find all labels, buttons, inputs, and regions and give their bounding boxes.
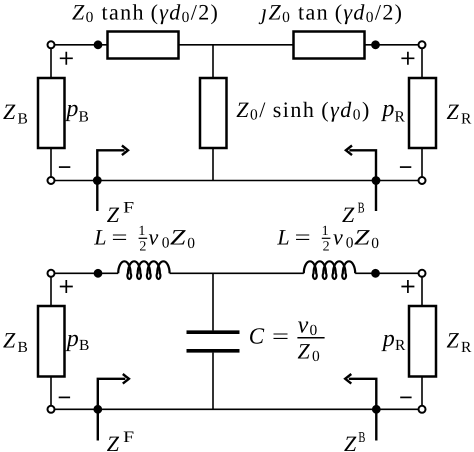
svg-text:R: R [461, 111, 472, 128]
svg-text:ν: ν [149, 225, 159, 250]
svg-text:R: R [395, 108, 406, 125]
svg-text:B: B [79, 108, 89, 125]
svg-text:B: B [358, 430, 365, 446]
svg-text:0: 0 [162, 235, 170, 252]
svg-text:Z: Z [447, 328, 460, 353]
svg-text:Z: Z [342, 202, 355, 227]
svg-text:0: 0 [312, 348, 320, 365]
svg-text:Z: Z [447, 99, 460, 124]
svg-text:L: L [276, 225, 289, 250]
svg-text:F: F [123, 429, 134, 446]
svg-text:0: 0 [310, 322, 318, 339]
svg-text:B: B [358, 201, 365, 217]
svg-text:Z: Z [354, 225, 370, 250]
svg-text:0: 0 [346, 235, 354, 252]
svg-text:Z: Z [107, 431, 120, 452]
svg-text:p: p [380, 96, 394, 122]
svg-text:=: = [112, 225, 128, 250]
svg-text:Z: Z [107, 202, 120, 227]
svg-text:=: = [272, 323, 289, 348]
svg-text:p: p [381, 326, 395, 352]
svg-text:Z: Z [344, 431, 357, 452]
svg-text:F: F [123, 200, 134, 217]
svg-text:=: = [295, 225, 311, 250]
svg-text:L: L [93, 225, 106, 250]
svg-text:ν: ν [298, 312, 309, 338]
svg-text:Z: Z [298, 339, 311, 364]
svg-text:B: B [18, 111, 28, 128]
svg-text:2: 2 [139, 240, 146, 255]
svg-text:1: 1 [138, 224, 145, 239]
svg-text:0: 0 [187, 235, 195, 252]
svg-text:0: 0 [371, 235, 379, 252]
svg-text:2: 2 [323, 240, 330, 255]
svg-text:ȷZ0 tan (γd0/2): ȷZ0 tan (γd0/2) [258, 0, 403, 26]
svg-text:1: 1 [322, 224, 329, 239]
svg-text:p: p [64, 96, 78, 122]
svg-text:R: R [461, 339, 472, 356]
svg-text:p: p [65, 326, 79, 352]
svg-text:R: R [395, 337, 406, 354]
svg-text:C: C [249, 324, 265, 349]
svg-text:Z: Z [3, 99, 16, 124]
svg-text:B: B [18, 339, 28, 356]
svg-text:Z0 tanh (γd0/2): Z0 tanh (γd0/2) [72, 0, 219, 26]
svg-text:B: B [79, 337, 89, 354]
svg-text:ν: ν [333, 225, 343, 250]
svg-text:Z: Z [3, 328, 16, 353]
svg-text:Z0/ sinh (γd0): Z0/ sinh (γd0) [236, 97, 371, 124]
svg-text:Z: Z [170, 225, 186, 250]
